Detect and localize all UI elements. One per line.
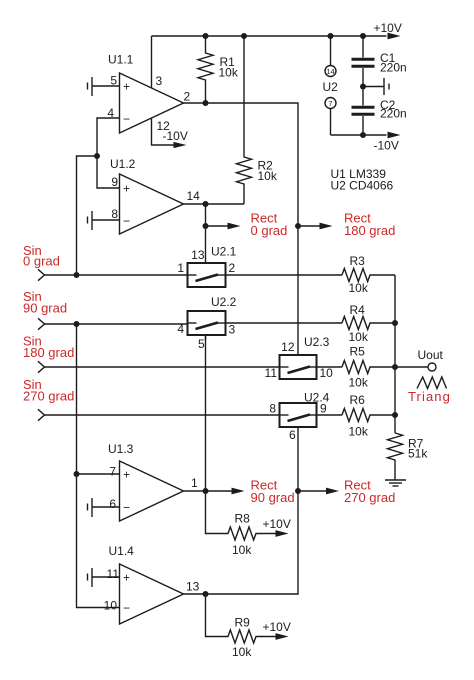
wire U2.4 out to R6 [317, 414, 343, 416]
node junction dot Rect 180 branch [295, 223, 301, 229]
svg-text:14: 14 [326, 67, 334, 76]
node +10V arrow [388, 33, 401, 40]
node Rect 90 grad arrow [206, 490, 233, 492]
svg-text:220n: 220n [380, 61, 407, 75]
svg-text:10k: 10k [349, 425, 369, 439]
svg-text:10k: 10k [349, 330, 369, 344]
svg-text:10k: 10k [258, 169, 278, 183]
ground at U1.1 pin 5 [91, 77, 93, 96]
svg-text:13: 13 [186, 580, 200, 594]
svg-text:13: 13 [191, 248, 205, 262]
SECTION: top power rail [152, 21, 407, 204]
svg-text:U1.4: U1.4 [109, 544, 135, 558]
ground at U1.4 pin 11 [91, 568, 93, 587]
pin 13 output wire U1.4 [184, 427, 299, 594]
svg-text:11: 11 [107, 567, 120, 581]
svg-text:1: 1 [177, 261, 184, 275]
wire U1.3 output up to U2.2 control [205, 335, 207, 491]
capacitor C1 [362, 36, 364, 58]
svg-text:R6: R6 [350, 393, 366, 407]
resistor R5 [342, 361, 395, 374]
svg-text:U2.2: U2.2 [211, 295, 237, 309]
wire +10V top rail [152, 35, 387, 37]
wire U2.2 out to R4 [226, 322, 343, 324]
svg-text:7: 7 [328, 99, 332, 108]
node junction dot C1-C2 midpoint [360, 84, 366, 90]
svg-text:10: 10 [104, 599, 118, 613]
wire Sin 0 grad [45, 274, 188, 276]
svg-text:10k: 10k [349, 281, 369, 295]
wire Uout tap [395, 366, 428, 368]
resistor R1 [198, 36, 213, 103]
node junction dot Sin 90 riser [74, 321, 80, 327]
svg-text:10k: 10k [232, 645, 252, 659]
svg-text:U1.2: U1.2 [110, 157, 136, 171]
svg-text:U2 CD4066: U2 CD4066 [331, 179, 394, 193]
svg-text:U2: U2 [323, 80, 339, 94]
wire U2.1 out to R3 [226, 274, 343, 276]
ground at C1-C2 midpoint [363, 86, 384, 88]
wire junction to Sin 0 riser [77, 156, 98, 275]
svg-text:+: + [123, 80, 130, 94]
svg-text:+: + [123, 468, 130, 482]
pin 10 wire U1.4 - input [77, 324, 120, 608]
resistor R2 [237, 36, 252, 204]
svg-text:R5: R5 [350, 345, 366, 359]
svg-text:−: − [123, 112, 130, 126]
pin 6 wire U1.3 - input [92, 506, 120, 508]
node junction dot Rect 270 branch [295, 488, 301, 494]
pin 14 U2 supply circle [325, 66, 336, 77]
svg-text:10k: 10k [219, 66, 239, 80]
svg-text:9: 9 [111, 175, 118, 189]
svg-text:R3: R3 [350, 254, 366, 268]
svg-text:2: 2 [229, 261, 236, 275]
svg-text:−: − [123, 501, 130, 515]
switch U2.2 [188, 311, 226, 335]
wire U2.3 out to R5 [317, 366, 343, 368]
node Sin 270 grad input [38, 409, 45, 420]
pin 7 wire U1.3 + input [77, 473, 120, 475]
node junction dot R5/bus [392, 364, 398, 370]
svg-text:0 grad: 0 grad [251, 223, 288, 238]
SECTION: resistors right [342, 254, 451, 486]
pin 8 wire U1.2 - input [92, 219, 120, 221]
svg-text:8: 8 [111, 207, 118, 221]
node junction dot output U1.2 [203, 201, 209, 207]
svg-text:Triang: Triang [408, 389, 451, 404]
svg-text:12: 12 [281, 340, 295, 354]
node junction dot C2/bottom [360, 132, 366, 138]
ground at U1.2 pin 8 [91, 211, 93, 230]
ground below R7 [385, 479, 406, 481]
pin 11 wire U1.4 + input [92, 576, 120, 578]
svg-text:6: 6 [109, 497, 116, 511]
wire Sin 90 grad [45, 323, 188, 325]
op-amp U1.2 comparator [120, 174, 184, 234]
svg-text:8: 8 [269, 402, 276, 416]
node Rect 270 grad arrow [298, 490, 326, 492]
node junction dot U1.3 pin 7 branch [74, 471, 80, 477]
svg-text:7: 7 [109, 465, 116, 479]
svg-text:3: 3 [229, 323, 236, 337]
op-amp U1.4 comparator [120, 564, 184, 624]
svg-text:-10V: -10V [163, 129, 188, 143]
svg-text:U1.1: U1.1 [108, 53, 134, 67]
svg-text:U1.3: U1.3 [108, 442, 134, 456]
node junction dot C1/top [360, 33, 366, 39]
svg-text:+10V: +10V [374, 21, 402, 35]
svg-text:+10V: +10V [263, 517, 291, 531]
svg-text:270 grad: 270 grad [23, 389, 74, 404]
svg-text:+10V: +10V [263, 620, 291, 634]
node junction dot R1/top [203, 33, 209, 39]
pin 12 stub U1.1 bottom supply to -10V [152, 118, 174, 145]
node Rect 180 grad arrow [298, 225, 320, 227]
svg-text:3: 3 [156, 74, 163, 88]
svg-text:220n: 220n [380, 107, 407, 121]
node Uout terminal circle [428, 363, 436, 371]
pin 14 output wire U1.2 [184, 203, 245, 205]
node junction dot R1/output U1.1 [203, 100, 209, 106]
node Sin 90 grad input [38, 318, 45, 329]
node junction dot Rect 0 branch [203, 223, 209, 229]
wire Sin 180 grad [45, 366, 280, 368]
svg-text:U2.1: U2.1 [211, 245, 237, 259]
svg-text:4: 4 [177, 322, 184, 336]
node triangle wave icon [417, 377, 447, 389]
svg-text:90 grad: 90 grad [23, 301, 67, 316]
svg-text:10: 10 [320, 366, 334, 380]
switch U2.4 [280, 403, 317, 427]
svg-text:5: 5 [198, 337, 205, 351]
pin 4 wire U1.1 - input [97, 118, 120, 156]
op-amp U1.3 comparator [120, 461, 184, 521]
svg-text:90 grad: 90 grad [251, 490, 295, 505]
resistor R7 [388, 433, 403, 480]
svg-text:10k: 10k [349, 376, 369, 390]
node junction dot Sin 0 [74, 272, 80, 278]
pin 7 U2 supply circle [325, 98, 336, 109]
svg-text:Uout: Uout [418, 348, 444, 362]
SECTION: switches [23, 243, 342, 442]
node input junction dot [94, 153, 100, 159]
node junction dot output U1.3 [203, 488, 209, 494]
wire junction to U1.2 pin 9 [97, 156, 120, 188]
ground at U1.3 pin 6 [91, 498, 93, 517]
svg-text:R9: R9 [235, 616, 251, 630]
wire U2.2 control pin 5 riser [205, 335, 207, 340]
resistor R3 [342, 269, 395, 282]
svg-text:270 grad: 270 grad [344, 490, 395, 505]
node Rect 0 grad arrow [206, 225, 229, 227]
node junction dot R4/bus [392, 320, 398, 326]
svg-text:+: + [123, 182, 130, 196]
switch U2.1 [188, 263, 226, 287]
resistor R4 [342, 317, 395, 330]
svg-text:11: 11 [265, 366, 278, 380]
resistor R9 pull-up [206, 594, 277, 643]
wire Sin 270 grad [45, 414, 280, 416]
svg-text:9: 9 [320, 402, 327, 416]
svg-text:−: − [123, 214, 130, 228]
node junction dot R6/bus [392, 412, 398, 418]
svg-text:180 grad: 180 grad [344, 223, 395, 238]
svg-text:51k: 51k [408, 447, 428, 461]
svg-text:180 grad: 180 grad [23, 345, 74, 360]
svg-text:14: 14 [187, 189, 201, 203]
node junction dot U2 supply/top [328, 33, 334, 39]
resistor R6 [342, 409, 395, 422]
svg-text:1: 1 [191, 476, 198, 490]
pin 5 wire U1.1 + input [92, 85, 120, 87]
svg-text:+: + [123, 571, 130, 585]
pin 3 stub U1.1 top supply [151, 36, 153, 88]
pin 2 output wire U1.1 [184, 103, 299, 355]
node Sin 0 grad input [38, 269, 45, 280]
wire -10V bottom rail [331, 134, 387, 136]
svg-text:4: 4 [107, 106, 114, 120]
wire summing bus [394, 275, 396, 433]
SECTION: comparators [74, 36, 396, 659]
svg-text:6: 6 [289, 428, 296, 442]
svg-text:5: 5 [110, 74, 117, 88]
svg-text:2: 2 [184, 90, 191, 104]
resistor R8 pull-up [206, 491, 277, 540]
node Sin 180 grad input [38, 361, 45, 372]
switch U2.3 [280, 355, 317, 379]
svg-text:U2.3: U2.3 [304, 335, 330, 349]
node -10V arrow [388, 132, 401, 139]
svg-text:R8: R8 [235, 512, 251, 526]
wire U2 supply riser bottom [330, 109, 332, 136]
svg-text:−: − [123, 601, 130, 615]
node junction dot R2/top [241, 33, 247, 39]
capacitor C2 [362, 87, 364, 106]
wire U2 supply riser top [330, 36, 332, 66]
svg-text:10k: 10k [232, 543, 252, 557]
pin 1 output wire U1.3 [184, 490, 206, 492]
svg-text:-10V: -10V [374, 139, 399, 153]
op-amp U1.1 comparator [120, 73, 184, 133]
svg-text:0 grad: 0 grad [23, 254, 60, 269]
svg-text:R4: R4 [350, 303, 366, 317]
node junction dot output U1.4 [203, 591, 209, 597]
wire U1.2 output down to U2.1 control [205, 204, 207, 263]
